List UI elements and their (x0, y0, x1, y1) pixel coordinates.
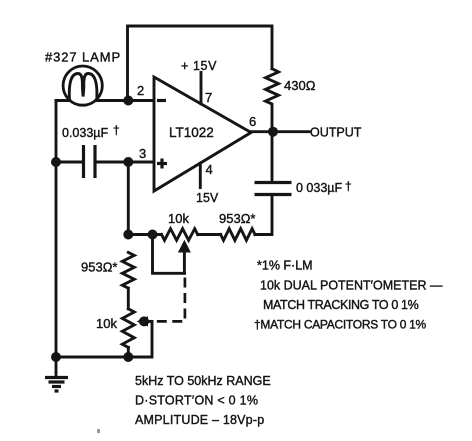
node output junction (268, 127, 278, 137)
svg-text:6: 6 (249, 114, 256, 129)
svg-text:2: 2 (137, 83, 144, 98)
svg-text:AMPLITUDE – 18Vp-p: AMPLITUDE – 18Vp-p (135, 413, 264, 427)
label #327 LAMP (45, 50, 121, 65)
wire from pin3 node down to wien node (127, 162, 130, 235)
note match tracking (263, 298, 419, 312)
wire pin4 supply stub (199, 163, 202, 187)
node bottom rail right (123, 352, 133, 362)
wire pin2 input from lamp to op-amp (56, 99, 154, 102)
ground (45, 357, 68, 391)
svg-text:+ 15V: + 15V (181, 59, 217, 73)
svg-text:15V: 15V (196, 191, 219, 205)
node pin2 junction (123, 96, 133, 106)
node pot left terminal junction (148, 230, 158, 240)
svg-text:430Ω: 430Ω (284, 78, 316, 93)
capacitor C1 0.033uF left (84, 145, 96, 178)
node bottom wiper junction (139, 316, 149, 326)
svg-text:7: 7 (205, 90, 212, 105)
dashed mechanical coupling (152, 278, 185, 322)
label pin number 2 (137, 83, 144, 98)
label minus input (157, 99, 166, 102)
svg-text:10k: 10k (168, 211, 189, 226)
svg-text:0.033µF: 0.033µF (62, 126, 108, 140)
label 0 033uF dagger right (296, 179, 352, 195)
wire pin3 input left segment (56, 161, 84, 164)
svg-text:5kHz TO 50kHz RANGE: 5kHz TO 50kHz RANGE (135, 374, 271, 388)
label LT1022 (169, 125, 214, 140)
label OUTPUT (310, 126, 362, 140)
label +15V top (181, 59, 217, 73)
resistor R1 430 ohm (266, 69, 279, 132)
note range (135, 374, 271, 388)
svg-text:953Ω*: 953Ω* (219, 211, 255, 226)
label 953 ohm series (219, 211, 255, 226)
svg-text:10k DUAL POTENT′OMETER —: 10k DUAL POTENT′OMETER — (260, 279, 443, 293)
resistor R2 953 ohm series (horizontal) (221, 229, 255, 241)
label pin number 3 (139, 146, 146, 161)
op-amp U1 LT1022 triangle (154, 77, 251, 191)
wire bottom wiper return (128, 321, 152, 357)
svg-text:*1% F·LM: *1% F·LM (257, 259, 313, 273)
potentiometer R5 10k (vertical) (122, 309, 134, 348)
wire pin3 input right segment (95, 161, 154, 164)
wire between shunt resistors (127, 288, 130, 309)
svg-text:10k: 10k (96, 316, 117, 331)
lamp #327 (63, 66, 102, 105)
label plus input (157, 159, 167, 169)
label 0.033uF dagger (62, 123, 120, 140)
svg-text:3: 3 (139, 146, 146, 161)
svg-text:4: 4 (206, 162, 213, 177)
potentiometer R3 10k (horizontal) (162, 229, 198, 241)
node wien divider junction (123, 230, 133, 240)
node bottom rail left (51, 352, 61, 362)
svg-text:†MATCH CAPACITORS TO 0 1%: †MATCH CAPACITORS TO 0 1% (254, 318, 427, 332)
wire output lead (273, 130, 309, 133)
svg-text:953Ω*: 953Ω* (81, 260, 117, 275)
wire pot left terminal to node (128, 233, 161, 236)
svg-text:LT1022: LT1022 (169, 125, 214, 140)
svg-text:OUTPUT: OUTPUT (310, 126, 362, 140)
label pin number 6 (249, 114, 256, 129)
node left rail / pin3 junction (51, 157, 61, 167)
note match capacitors (254, 318, 427, 332)
wire left rail down from lamp wire (55, 101, 58, 358)
label 15V bottom (196, 191, 219, 205)
note distortion (135, 394, 258, 408)
note 10k dual potentiometer (260, 279, 443, 293)
label 953 ohm shunt (81, 260, 117, 275)
node pin3 junction (123, 157, 133, 167)
wire capacitor C2 to wien series branch (255, 195, 272, 235)
capacitor C2 0.033uF right (255, 183, 292, 195)
wire bottom ground bus (56, 356, 128, 359)
speck artifact (97, 429, 100, 433)
label 430 ohm (284, 78, 316, 93)
svg-text:D·STORT′ON < 0 1%: D·STORT′ON < 0 1% (135, 394, 258, 408)
label pin number 7 (205, 90, 212, 105)
note amplitude (135, 413, 264, 427)
wire bottom pot to ground rail (127, 347, 130, 357)
label 10k bottom pot (96, 316, 117, 331)
wire op-amp output to node (251, 130, 273, 133)
wire output node down to capacitor C2 (271, 132, 274, 183)
wire between pot and series resistor (198, 233, 221, 236)
label 10k top pot (168, 211, 189, 226)
svg-text:†: † (345, 179, 352, 193)
svg-text:MATCH TRACKING TO 0 1%: MATCH TRACKING TO 0 1% (263, 298, 419, 312)
svg-text:#327 LAMP: #327 LAMP (45, 50, 121, 65)
svg-text:†: † (113, 123, 120, 137)
wire wiper loop to left terminal (153, 235, 185, 274)
note 1 percent film (257, 259, 313, 273)
svg-text:0 033µF: 0 033µF (296, 181, 342, 195)
wire top feedback from pin2 node to 430 ohm branch (128, 26, 273, 101)
resistor R4 953 ohm shunt (vertical) (122, 252, 134, 288)
wiper arrow of bottom pot (137, 316, 152, 326)
wire pin7 supply stub (200, 73, 203, 104)
label pin number 4 (206, 162, 213, 177)
wiper arrow of top pot (178, 240, 191, 273)
